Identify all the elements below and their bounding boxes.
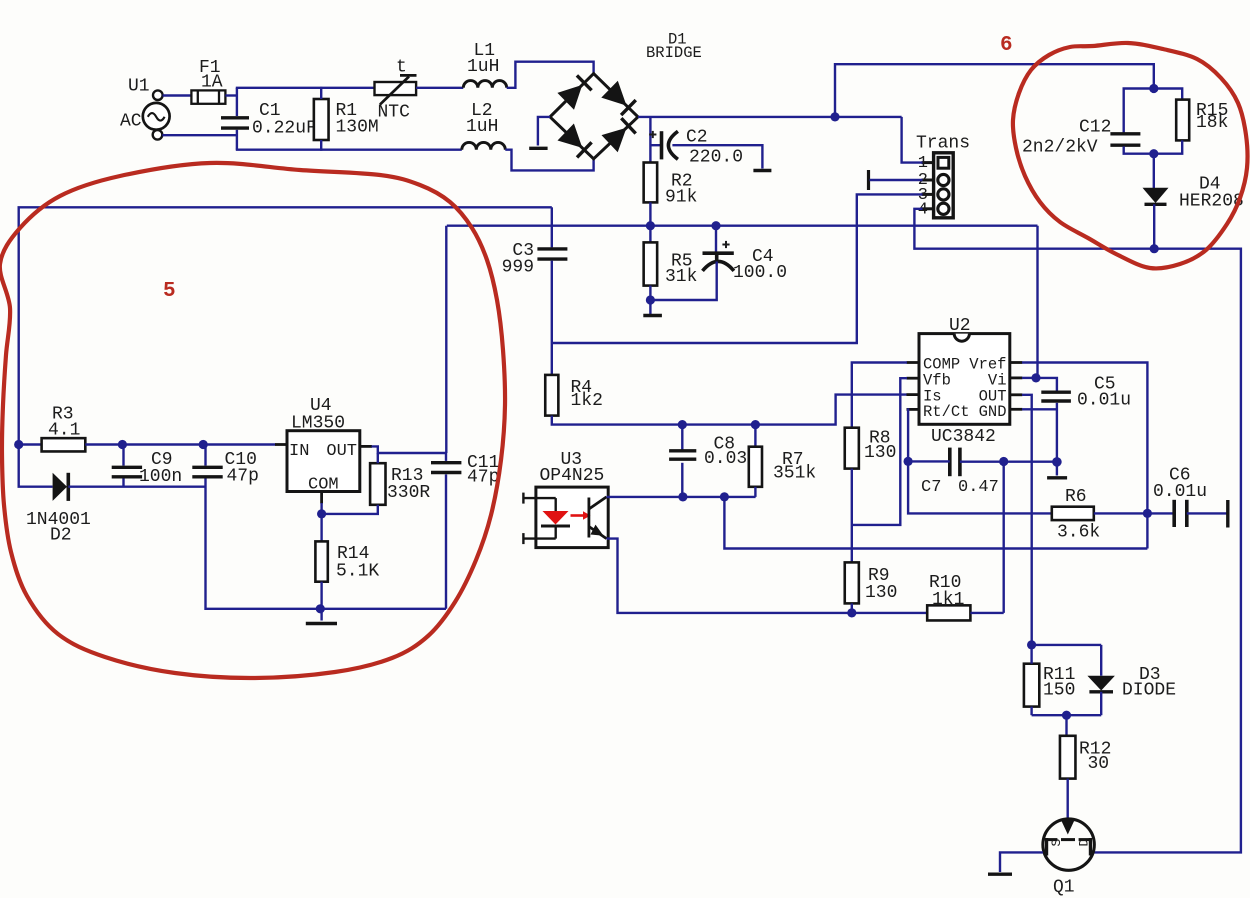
svg-text:351k: 351k xyxy=(773,464,816,484)
wire R8 to R9 xyxy=(851,469,853,563)
diode D4 xyxy=(1143,188,1169,205)
junction opto collector feedback xyxy=(720,492,729,501)
wire U1 top to fuse xyxy=(163,94,192,96)
junction COM R13 xyxy=(317,509,326,518)
svg-text:2n2/2kV: 2n2/2kV xyxy=(1022,138,1098,158)
junction C7 R10 branch xyxy=(999,457,1008,466)
wire left rail down to D2 line xyxy=(19,445,53,487)
capacitor C4 polarized xyxy=(703,253,734,271)
diode D2 xyxy=(53,473,69,501)
wire D3 bottom stub xyxy=(1100,692,1102,715)
op-amp regulator U4 LM350 box xyxy=(275,431,372,504)
wire opto collector xyxy=(607,496,756,498)
svg-text:UC3842: UC3842 xyxy=(931,427,996,447)
transformer Trans connector xyxy=(922,153,954,218)
wire R14 bottom xyxy=(320,582,322,621)
svg-text:0.22uF: 0.22uF xyxy=(252,119,317,139)
wire feedback down to Vref line xyxy=(724,497,1147,549)
bridge diode top-left xyxy=(557,75,591,109)
wire OUT up to bus xyxy=(445,226,447,453)
wire gate drive top xyxy=(1032,644,1102,646)
wire trans pin2 xyxy=(870,179,923,181)
svg-text:130: 130 xyxy=(865,583,897,603)
wire COMP stub xyxy=(852,363,907,428)
wire drain rail right side xyxy=(1094,249,1241,853)
bridge diode bottom-right xyxy=(602,118,636,152)
svg-text:0.01u: 0.01u xyxy=(1153,482,1207,502)
wire R3 left xyxy=(19,443,42,445)
inductor L2 xyxy=(462,142,506,149)
capacitor C6 xyxy=(1174,500,1187,527)
wire opto emitter xyxy=(607,539,928,613)
wire R1 bottom stub xyxy=(320,140,322,151)
plus sign C4 xyxy=(722,241,729,248)
svg-text:COM: COM xyxy=(308,476,339,495)
wire U4 OUT line xyxy=(372,446,447,453)
wire C11 bottom stub xyxy=(445,474,447,608)
opto LED anode pin xyxy=(523,493,555,504)
main bus wire xyxy=(447,224,1038,226)
svg-text:0.01u: 0.01u xyxy=(1077,391,1131,411)
svg-text:6: 6 xyxy=(1000,34,1013,57)
ground bar U2 gnd xyxy=(1047,476,1067,479)
wire C9 top stub xyxy=(122,445,124,466)
wire R13 top stub xyxy=(377,453,379,463)
capacitor C10 xyxy=(192,467,222,477)
junction C9 top xyxy=(118,440,127,449)
svg-text:BRIDGE: BRIDGE xyxy=(646,44,702,62)
junction OUT R11 xyxy=(1027,640,1036,649)
transistor Q1 MOSFET xyxy=(1043,819,1094,870)
resistor R12 xyxy=(1060,736,1076,779)
wire Vi vertical from bus xyxy=(1036,226,1038,378)
wire bridge+ down to R2 xyxy=(649,117,651,163)
wire Vi to C5 xyxy=(1036,378,1057,391)
bridge diode top-right xyxy=(601,81,636,115)
wire ground line to C11 xyxy=(320,608,446,610)
wire Vi stub xyxy=(1022,377,1036,379)
wire C10 bottom to ground line xyxy=(206,479,321,609)
wire R1 top stub xyxy=(320,87,322,99)
wire GND stub xyxy=(1022,408,1057,410)
wire snubber to D4 xyxy=(1153,154,1155,189)
terminal bar C6 xyxy=(1226,500,1229,528)
svg-text:C12: C12 xyxy=(1079,118,1111,138)
resistor R3 xyxy=(42,438,86,451)
resistor R15 xyxy=(1176,100,1189,141)
svg-text:LM350: LM350 xyxy=(291,414,345,434)
wire HV+ up and right to snubber xyxy=(835,64,1154,117)
wire stub to C2 xyxy=(650,144,660,146)
resistor R10 xyxy=(927,605,970,620)
wire C3 to R4 xyxy=(551,261,553,375)
svg-text:3.6k: 3.6k xyxy=(1057,523,1100,543)
junction at HV+ rail xyxy=(830,112,839,121)
wire R15 bottom xyxy=(1154,140,1182,153)
wire D2 to C10 vertical xyxy=(68,486,205,488)
svg-text:GND: GND xyxy=(979,403,1007,421)
wire C11 top stub xyxy=(445,453,447,461)
wire C5 bottom to GND stub xyxy=(1056,403,1058,462)
junction RtCt C7 xyxy=(904,457,913,466)
capacitor C5 xyxy=(1041,392,1071,401)
junction dot left rail R3 xyxy=(14,440,23,449)
terminal bar C2 xyxy=(753,169,771,172)
svg-text:330R: 330R xyxy=(387,483,430,503)
resistor R2 xyxy=(644,163,658,203)
opto LED cathode pin xyxy=(523,533,555,544)
wire C1 vertical top xyxy=(236,88,238,116)
wire L1 to bridge top xyxy=(507,62,594,88)
svg-text:100n: 100n xyxy=(139,467,182,487)
svg-text:OP4N25: OP4N25 xyxy=(540,466,605,486)
svg-text:IN: IN xyxy=(289,442,309,461)
wire C8 bottom stub xyxy=(681,463,683,497)
wire C4 top xyxy=(715,226,717,253)
wire C4 bottom xyxy=(650,262,716,301)
svg-text:91k: 91k xyxy=(665,188,697,208)
junction C4 bus xyxy=(711,221,720,230)
wire RtCt stub xyxy=(907,409,908,461)
controller U2 UC3842 box xyxy=(907,334,1023,425)
junction R12 xyxy=(1062,711,1071,720)
svg-text:R6: R6 xyxy=(1065,487,1087,507)
svg-text:130: 130 xyxy=(864,443,896,463)
svg-text:1k1: 1k1 xyxy=(932,590,964,610)
wire R12 to gate xyxy=(1066,779,1068,824)
svg-text:D: D xyxy=(1077,839,1092,847)
ground Q1 xyxy=(988,873,1012,876)
ground R5 xyxy=(643,314,662,317)
wire bottom rail to L2 xyxy=(236,148,462,150)
wire D3 top stub xyxy=(1100,645,1102,676)
terminal bar at bridge left xyxy=(529,147,547,150)
svg-text:S: S xyxy=(1049,839,1064,847)
junction C8 bottom xyxy=(678,492,687,501)
wire RtCt down to R6 line xyxy=(908,461,1052,513)
svg-text:Trans: Trans xyxy=(916,134,970,154)
junction snubber top xyxy=(1149,84,1158,93)
wire C8 top stub xyxy=(681,425,683,450)
inductor L1 xyxy=(463,81,506,88)
wire R4 bottom to Is line xyxy=(552,395,907,425)
svg-text:1uH: 1uH xyxy=(466,117,498,137)
wire R7 top stub xyxy=(754,425,756,447)
svg-text:18k: 18k xyxy=(1196,113,1228,133)
wire Vfb stub xyxy=(852,378,907,525)
svg-text:999: 999 xyxy=(502,258,534,278)
resistor R4 xyxy=(545,375,558,416)
bridge diode bottom-left xyxy=(558,124,592,158)
wire bridge left corner to AC- terminal xyxy=(538,117,550,146)
capacitor C3 xyxy=(537,249,567,259)
svg-text:AC: AC xyxy=(120,112,142,132)
capacitor C1 xyxy=(221,118,249,128)
red annotation loop 6 xyxy=(1013,43,1248,269)
svg-text:4.1: 4.1 xyxy=(48,421,80,441)
junction GND node xyxy=(1052,457,1062,467)
wire R12 top stub xyxy=(1065,715,1067,736)
svg-text:5: 5 xyxy=(163,280,176,303)
svg-text:220.0: 220.0 xyxy=(689,148,743,168)
svg-text:Q1: Q1 xyxy=(1053,878,1075,898)
opto light arrow xyxy=(571,511,591,519)
junction R7 top xyxy=(751,420,760,429)
fuse F1 xyxy=(191,90,225,103)
svg-text:D2: D2 xyxy=(50,526,72,546)
svg-text:5.1K: 5.1K xyxy=(336,562,379,582)
wire U1 bottom xyxy=(162,134,238,136)
wire R11 top stub xyxy=(1030,645,1032,664)
capacitor C2 polarized xyxy=(662,131,678,159)
bridge rectifier D1 diamond xyxy=(550,74,638,159)
wire left top rail xyxy=(19,207,552,444)
junction Vref R6C6 xyxy=(1143,509,1152,518)
wire C3 R4 vertical upper xyxy=(551,207,553,247)
wire C7 right xyxy=(960,461,1057,463)
wire C7 left xyxy=(908,460,950,462)
wire R5 top xyxy=(649,226,651,243)
wire D4 to drain rail xyxy=(1153,204,1155,248)
capacitor C7 xyxy=(950,448,960,477)
resistor R7 xyxy=(749,447,762,487)
junction D4 drain rail xyxy=(1150,244,1159,253)
junction R5 C4 xyxy=(646,295,655,304)
resistor R13 xyxy=(370,463,385,505)
capacitor C8 xyxy=(669,451,696,459)
svg-text:47p: 47p xyxy=(227,467,259,487)
capacitor C12 xyxy=(1110,134,1140,145)
resistor R11 xyxy=(1024,664,1039,707)
wire fuse to C1 node xyxy=(225,94,238,96)
capacitor C11 xyxy=(431,463,461,473)
svg-text:t: t xyxy=(396,58,407,78)
ground stub U2 xyxy=(1056,462,1058,476)
wire snubber right branch xyxy=(1154,89,1182,100)
wire top rail to NTC xyxy=(236,87,375,89)
resistor R1 xyxy=(314,99,329,140)
svg-text:100.0: 100.0 xyxy=(733,263,787,283)
svg-text:OUT: OUT xyxy=(326,442,357,461)
wire R9 bottom xyxy=(851,603,853,613)
wire gate drive bottom xyxy=(1032,714,1102,716)
svg-text:130M: 130M xyxy=(336,118,379,138)
wire R2 to bus xyxy=(649,202,651,225)
wire L2 to bridge bottom xyxy=(505,150,593,171)
svg-text:30: 30 xyxy=(1088,754,1110,774)
junction snubber bottom xyxy=(1149,149,1158,158)
wire C1 vertical bottom xyxy=(236,130,238,150)
junction Vi xyxy=(1031,373,1040,382)
svg-text:47p: 47p xyxy=(467,468,499,488)
wire Vref stub xyxy=(1022,363,1147,549)
svg-text:U2: U2 xyxy=(949,316,971,336)
wire snubber left branch xyxy=(1124,89,1154,133)
resistor R9 xyxy=(845,562,859,603)
wire R3 to U4 IN xyxy=(85,443,275,445)
wire trans pin3 xyxy=(552,194,923,343)
svg-text:0.47: 0.47 xyxy=(958,478,999,497)
wire bridge right to transformer node xyxy=(638,116,902,118)
svg-text:1A: 1A xyxy=(201,73,223,93)
wire NTC to L1 xyxy=(416,87,463,89)
opto phototransistor xyxy=(589,497,607,539)
resistor R8 xyxy=(845,428,859,469)
junction R9 emitter line xyxy=(847,608,856,617)
junction R14 ground line xyxy=(316,604,325,613)
wire C2 to terminal xyxy=(672,145,762,168)
ground R14 xyxy=(306,622,337,625)
junction C10 top xyxy=(199,440,208,449)
wire R10 right up xyxy=(970,612,1003,614)
wire trans pin1 xyxy=(902,117,923,163)
wire C6 right xyxy=(1187,512,1227,514)
wire R6 to C6 xyxy=(1094,512,1174,514)
resistor R5 xyxy=(644,242,658,285)
wire C10 top stub xyxy=(204,445,206,466)
svg-text:U1: U1 xyxy=(128,77,150,97)
capacitor C9 xyxy=(112,467,142,477)
svg-text:1k2: 1k2 xyxy=(571,391,603,411)
red annotation loop 5 xyxy=(0,163,505,678)
wire R7 bottom stub xyxy=(754,487,756,497)
optocoupler U3 box xyxy=(536,487,608,547)
resistor R14 xyxy=(315,541,327,581)
wire C12 bottom xyxy=(1124,146,1154,153)
terminal bar pin2 xyxy=(867,170,870,190)
svg-text:NTC: NTC xyxy=(378,103,411,123)
junction R2 bus xyxy=(646,221,655,230)
plus sign C2 xyxy=(649,131,656,138)
wire OUT stub xyxy=(1022,395,1032,645)
svg-text:Rt/Ct: Rt/Ct xyxy=(923,403,970,421)
svg-text:DIODE: DIODE xyxy=(1122,681,1176,701)
svg-text:C7: C7 xyxy=(921,478,941,497)
junction C8 top xyxy=(678,420,687,429)
svg-text:31k: 31k xyxy=(665,267,697,287)
wire R13 bottom to COM xyxy=(322,505,378,514)
resistor R6 xyxy=(1052,507,1094,520)
wire Q1 source xyxy=(1000,852,1043,872)
diode D3 xyxy=(1087,676,1115,692)
wire U4 COM down xyxy=(320,503,322,541)
wire R11 bottom stub xyxy=(1030,707,1032,716)
svg-text:1uH: 1uH xyxy=(467,57,499,77)
wire C9 bottom stub xyxy=(122,479,124,487)
thermistor NTC xyxy=(375,75,417,104)
wire R5 bottom xyxy=(649,286,651,315)
wire trans pin4 xyxy=(914,209,1154,249)
AC source U1 xyxy=(143,90,170,139)
wire branch down to emitter line xyxy=(1003,462,1005,613)
opto LED xyxy=(541,498,570,538)
svg-text:150: 150 xyxy=(1043,681,1075,701)
